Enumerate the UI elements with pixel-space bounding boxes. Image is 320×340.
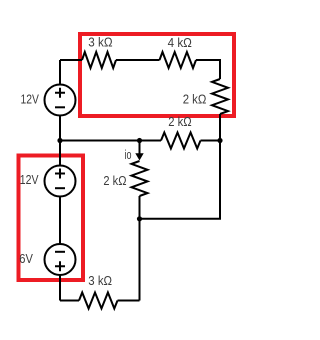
V3 minus sign xyxy=(55,251,65,253)
V1 plus sign xyxy=(55,88,65,98)
highlight box 2 (left sources: 12V, 6V) xyxy=(19,156,84,281)
svg-text:2 kΩ: 2 kΩ xyxy=(103,174,126,188)
voltage source V1 12V (top left) xyxy=(45,85,76,116)
V3 plus sign xyxy=(55,261,65,271)
voltage source V2 12V (middle left) xyxy=(45,166,76,197)
highlight box 1 (top loop: 3k, 4k, 2k) xyxy=(80,34,234,116)
wire R6 to bottom-right corner up to node D branch xyxy=(118,300,140,302)
svg-text:4 kΩ: 4 kΩ xyxy=(168,36,192,50)
node A junction dot xyxy=(57,138,62,143)
wire R5 bottom to node D xyxy=(139,196,141,219)
wire R4 to node C xyxy=(201,140,221,142)
resistor R3 2 kOhm (right vertical) xyxy=(212,79,228,114)
wire node B down to R5 (arrow tail) xyxy=(139,141,141,157)
wire V1 bottom to node A xyxy=(59,116,61,141)
V2 minus sign xyxy=(55,187,65,189)
wire node D down to bottom rail xyxy=(139,219,141,301)
svg-text:3 kΩ: 3 kΩ xyxy=(88,36,112,50)
resistor R1 3 kOhm (top left) xyxy=(82,52,116,68)
wire top horizontal left (corner to R1) xyxy=(60,59,82,61)
svg-text:2 kΩ: 2 kΩ xyxy=(183,93,207,107)
V1 minus sign xyxy=(55,106,65,108)
resistor R5 2 kOhm (middle vertical) xyxy=(132,161,148,196)
svg-text:12V: 12V xyxy=(20,173,39,187)
wire node A to node B xyxy=(60,140,140,142)
wire R3 bottom to node C xyxy=(219,114,221,141)
wire top-left vertical (V1 top to corner) xyxy=(59,60,61,84)
wire top-right corner down to R3 xyxy=(196,60,220,79)
resistor R4 2 kOhm (middle horizontal) xyxy=(161,133,201,149)
wire V3 bottom to bottom-left corner xyxy=(59,276,61,301)
svg-text:io: io xyxy=(125,148,132,162)
svg-text:6V: 6V xyxy=(19,252,33,266)
V2 plus sign xyxy=(55,169,65,179)
resistor R6 3 kOhm (bottom) xyxy=(79,293,118,309)
wire bottom-left corner to R6 xyxy=(60,300,79,302)
svg-text:2 kΩ: 2 kΩ xyxy=(168,115,191,129)
resistor R2 4 kOhm (top right) xyxy=(160,52,197,68)
current arrow io head xyxy=(135,153,143,160)
node D junction dot xyxy=(137,216,142,221)
node B junction dot xyxy=(137,138,142,143)
wire node A down to V2 top xyxy=(59,141,61,166)
voltage source V3 6V (bottom left) xyxy=(45,244,76,275)
svg-text:12V: 12V xyxy=(21,93,40,107)
wire between R1 and R2 xyxy=(116,59,160,61)
wire node B to R4 xyxy=(140,140,162,142)
wire node C down and left to node D xyxy=(140,141,221,219)
wire V2 bottom to V3 top xyxy=(59,197,61,244)
node C junction dot xyxy=(217,138,222,143)
svg-text:3 kΩ: 3 kΩ xyxy=(88,274,112,288)
